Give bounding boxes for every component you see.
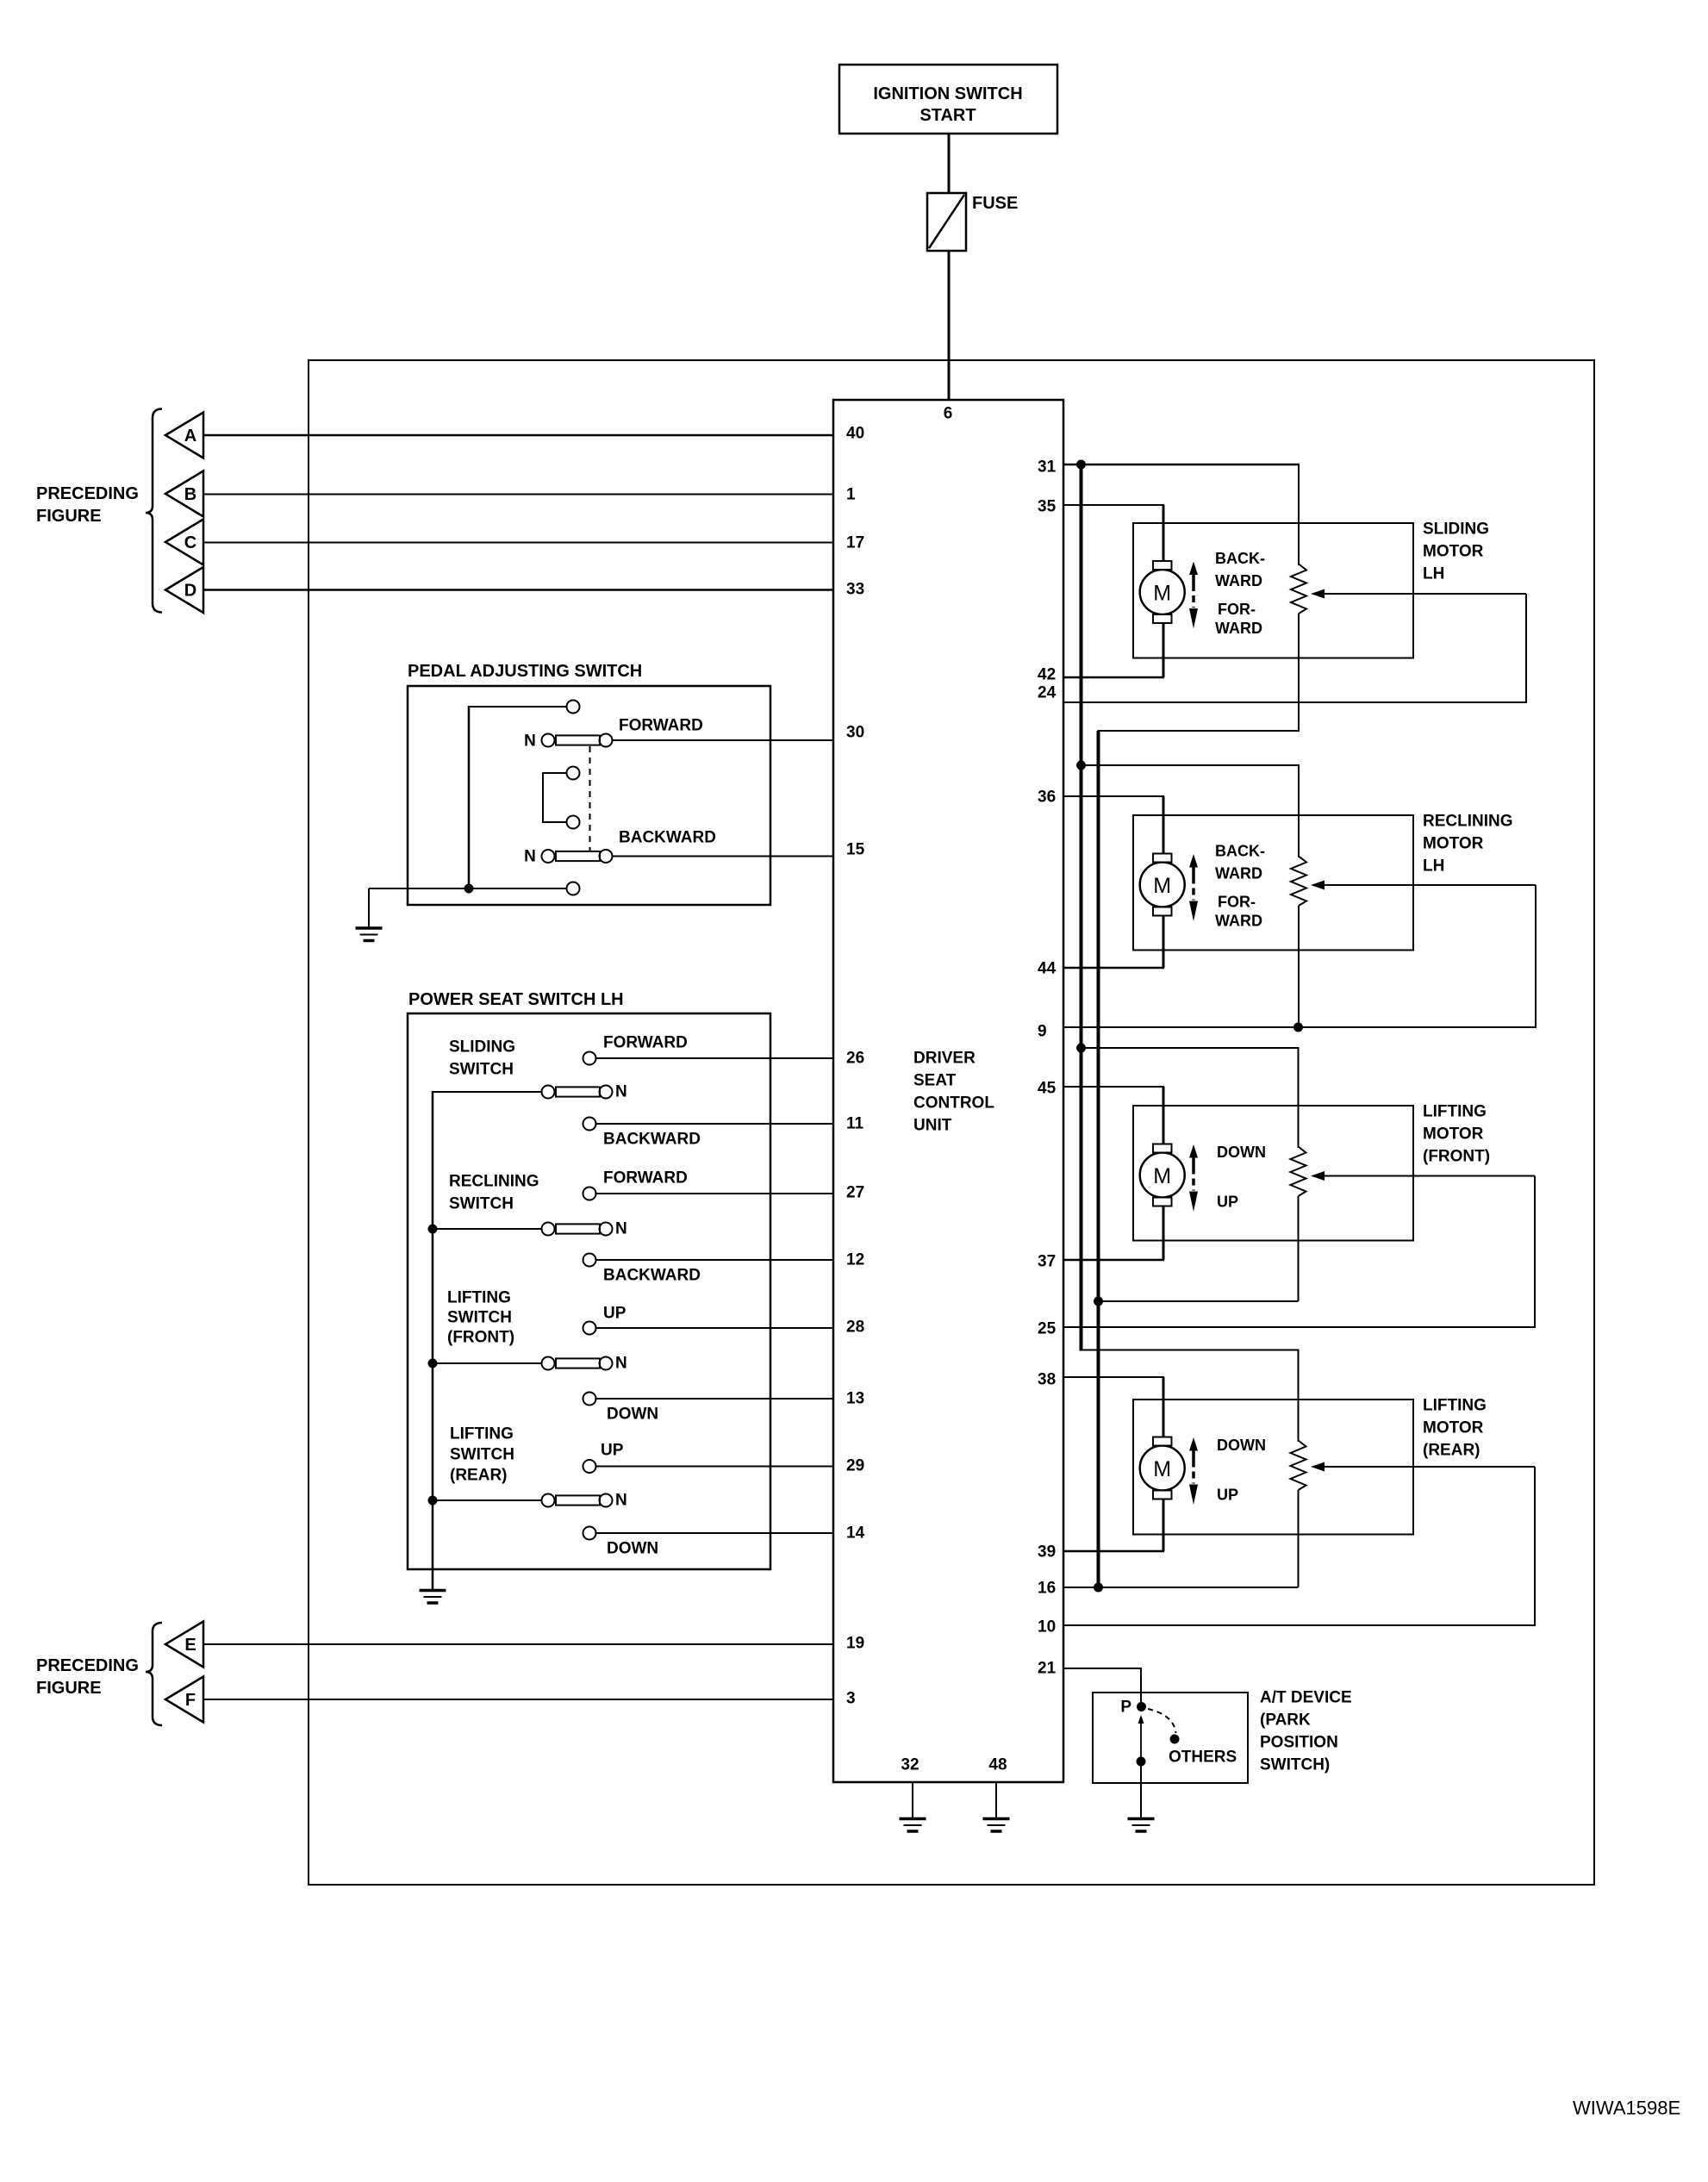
svg-text:B: B bbox=[184, 485, 196, 504]
motor2 resistor lower lead bbox=[1298, 906, 1300, 1027]
svg-text:40: 40 bbox=[846, 425, 864, 443]
svg-text:FIGURE: FIGURE bbox=[36, 1679, 102, 1698]
svg-text:14: 14 bbox=[846, 1524, 865, 1543]
motor M2 bbox=[1140, 863, 1185, 907]
svg-text:BACKWARD: BACKWARD bbox=[603, 1131, 701, 1149]
svg-text:SLIDING: SLIDING bbox=[449, 1038, 515, 1057]
wire sliding bar to common bbox=[433, 1091, 542, 1093]
wire to pin 27 bbox=[596, 1193, 834, 1194]
motor1 position sensor resistor bbox=[1291, 564, 1306, 614]
reclining switch backward contact bbox=[583, 1254, 596, 1267]
wire pin 38 to motor4 bbox=[1063, 1376, 1164, 1378]
pedal ground bbox=[368, 888, 370, 928]
wire to pin 13 bbox=[596, 1398, 834, 1400]
node bus1 feed motor2 bbox=[1076, 761, 1086, 770]
svg-text:CONTROL: CONTROL bbox=[913, 1094, 994, 1113]
motor2 direction arrows bbox=[1189, 854, 1198, 868]
power seat switch ground bbox=[420, 1589, 446, 1593]
return bus 2 bbox=[1097, 731, 1100, 1587]
svg-text:30: 30 bbox=[846, 724, 864, 742]
pin 48 ground bbox=[995, 1782, 997, 1818]
svg-text:LH: LH bbox=[1423, 857, 1444, 876]
svg-text:D: D bbox=[184, 582, 196, 601]
svg-text:N: N bbox=[524, 848, 536, 866]
svg-text:48: 48 bbox=[988, 1756, 1007, 1774]
motor2 wiper arrow bbox=[1322, 884, 1536, 886]
wire pedal backward to pin 15 bbox=[613, 856, 834, 857]
svg-text:BACKWARD: BACKWARD bbox=[603, 1267, 701, 1285]
motor3 position sensor resistor bbox=[1291, 1147, 1306, 1197]
motor4 position sensor resistor bbox=[1291, 1441, 1306, 1491]
wire pin 16 to motor4 resistor return bbox=[1063, 1587, 1299, 1588]
driver seat control unit bbox=[833, 400, 1063, 1782]
svg-text:37: 37 bbox=[1038, 1253, 1056, 1271]
connector triangle F bbox=[165, 1677, 203, 1723]
motor3 wiper arrow bbox=[1322, 1175, 1535, 1177]
svg-text:45: 45 bbox=[1038, 1080, 1057, 1098]
svg-text:11: 11 bbox=[846, 1115, 864, 1133]
switch arm arrow bbox=[1140, 1722, 1142, 1759]
node pedal common junction bbox=[369, 888, 566, 889]
dashed selector arc bbox=[1148, 1709, 1176, 1733]
wire to pin 14 bbox=[596, 1532, 834, 1534]
svg-text:A/T DEVICE: A/T DEVICE bbox=[1260, 1689, 1352, 1707]
svg-text:PRECEDING: PRECEDING bbox=[36, 1656, 139, 1675]
svg-text:13: 13 bbox=[846, 1390, 864, 1408]
svg-text:N: N bbox=[615, 1220, 627, 1238]
svg-text:FOR-: FOR- bbox=[1218, 894, 1256, 911]
svg-text:N: N bbox=[615, 1355, 627, 1373]
lower contact bbox=[1137, 1757, 1146, 1767]
svg-text:FORWARD: FORWARD bbox=[619, 717, 703, 735]
wire F to pin 3 bbox=[203, 1699, 833, 1700]
svg-text:UP: UP bbox=[601, 1442, 624, 1460]
node bus1 top junction bbox=[1076, 460, 1086, 470]
motor1 resistor return bbox=[1298, 614, 1300, 732]
wire ignition to fuse bbox=[948, 134, 951, 193]
svg-text:26: 26 bbox=[846, 1050, 864, 1068]
sliding switch backward contact bbox=[583, 1118, 596, 1131]
svg-text:WARD: WARD bbox=[1215, 572, 1262, 589]
wire to pin 12 bbox=[596, 1259, 834, 1261]
common ground line bbox=[432, 1091, 434, 1590]
svg-text:39: 39 bbox=[1038, 1543, 1056, 1562]
svg-text:UNIT: UNIT bbox=[913, 1117, 952, 1135]
svg-text:LIFTING: LIFTING bbox=[450, 1425, 514, 1443]
svg-text:28: 28 bbox=[846, 1319, 864, 1337]
motor1 direction arrows bbox=[1189, 562, 1198, 576]
svg-text:POSITION: POSITION bbox=[1260, 1734, 1338, 1752]
svg-text:(FRONT): (FRONT) bbox=[447, 1329, 514, 1347]
pedal neutral contacts bbox=[567, 767, 580, 780]
svg-text:RECLINING: RECLINING bbox=[1423, 813, 1513, 831]
ignition switch box bbox=[839, 65, 1057, 134]
reclining motor LH box bbox=[1133, 815, 1413, 951]
svg-text:(FRONT): (FRONT) bbox=[1423, 1148, 1490, 1166]
node bus2 pin16 junction bbox=[1094, 1583, 1103, 1593]
wire motor2 wiper to pin 9 bbox=[1535, 885, 1537, 1027]
svg-text:38: 38 bbox=[1038, 1371, 1056, 1389]
feed wire to motor3 resistor bbox=[1082, 1047, 1300, 1049]
motor M3 bbox=[1140, 1153, 1185, 1198]
svg-text:OTHERS: OTHERS bbox=[1169, 1749, 1237, 1767]
wire pedal forward to pin 30 bbox=[613, 739, 834, 741]
svg-text:DOWN: DOWN bbox=[1217, 1144, 1266, 1161]
node bus1 feed motor3 bbox=[1076, 1044, 1086, 1053]
svg-text:10: 10 bbox=[1038, 1618, 1056, 1636]
sliding switch bar bbox=[542, 1086, 555, 1099]
svg-text:SLIDING: SLIDING bbox=[1423, 521, 1489, 539]
wire pin 31 to resistor feed bbox=[1063, 464, 1300, 466]
svg-text:LIFTING: LIFTING bbox=[1423, 1103, 1487, 1121]
svg-text:M: M bbox=[1153, 874, 1171, 898]
wire motor4 wiper to pin 10 bbox=[1534, 1467, 1536, 1625]
contact OTHERS bbox=[1170, 1735, 1180, 1744]
svg-text:START: START bbox=[919, 106, 976, 125]
svg-text:12: 12 bbox=[846, 1251, 864, 1269]
motor4 direction arrows bbox=[1189, 1437, 1198, 1451]
connector triangle B bbox=[165, 471, 203, 517]
svg-text:BACK-: BACK- bbox=[1215, 843, 1265, 860]
svg-text:PEDAL ADJUSTING SWITCH: PEDAL ADJUSTING SWITCH bbox=[408, 662, 642, 681]
svg-text:35: 35 bbox=[1038, 498, 1057, 516]
wire motor1 to pin 42 bbox=[1163, 623, 1165, 677]
svg-text:27: 27 bbox=[846, 1184, 864, 1202]
svg-text:32: 32 bbox=[901, 1756, 919, 1774]
svg-text:25: 25 bbox=[1038, 1320, 1057, 1338]
svg-text:21: 21 bbox=[1038, 1660, 1057, 1678]
motor3 direction arrows bbox=[1189, 1144, 1198, 1158]
svg-text:MOTOR: MOTOR bbox=[1423, 543, 1484, 561]
node resistor2 to pin9 junction bbox=[1293, 1023, 1303, 1032]
mechanical link dashed bbox=[589, 746, 591, 851]
svg-text:FORWARD: FORWARD bbox=[603, 1169, 688, 1188]
motor4 wiper arrow bbox=[1322, 1466, 1535, 1468]
connector triangle A bbox=[165, 413, 203, 458]
svg-text:N: N bbox=[524, 733, 536, 751]
svg-text:DOWN: DOWN bbox=[607, 1406, 658, 1424]
svg-text:FUSE: FUSE bbox=[972, 194, 1018, 213]
svg-text:BACK-: BACK- bbox=[1215, 550, 1265, 567]
wire to pin 11 bbox=[596, 1123, 834, 1125]
svg-text:E: E bbox=[184, 1636, 196, 1655]
wire to pin 26 bbox=[596, 1057, 834, 1059]
A/T device box bbox=[1093, 1693, 1248, 1783]
svg-text:6: 6 bbox=[944, 405, 953, 423]
svg-text:33: 33 bbox=[846, 581, 864, 599]
svg-text:(REAR): (REAR) bbox=[450, 1467, 508, 1485]
brace top bbox=[146, 409, 162, 613]
brace bottom bbox=[146, 1623, 162, 1725]
node bus2 motor3 return bbox=[1094, 1297, 1103, 1306]
svg-text:44: 44 bbox=[1038, 960, 1057, 978]
svg-text:42: 42 bbox=[1038, 666, 1056, 684]
wire motor2 to pin 44 bbox=[1163, 916, 1165, 969]
wire B to pin 1 bbox=[203, 494, 833, 496]
wire top contact to common bbox=[469, 706, 566, 708]
wire fuse to pin 6 bbox=[948, 251, 951, 401]
svg-text:SWITCH: SWITCH bbox=[450, 1446, 514, 1464]
connector triangle E bbox=[165, 1622, 203, 1668]
motor M4 bbox=[1140, 1446, 1185, 1491]
svg-text:P: P bbox=[1120, 1699, 1131, 1717]
svg-text:M: M bbox=[1153, 1457, 1171, 1481]
pedal common bottom contact bbox=[567, 882, 580, 895]
lifting front switch bar bbox=[428, 1359, 438, 1368]
wire A to pin 40 bbox=[203, 434, 833, 437]
wire pin 36 to motor2 bbox=[1063, 795, 1164, 797]
wire motor4 to pin 39 bbox=[1163, 1499, 1165, 1552]
svg-text:36: 36 bbox=[1038, 789, 1056, 807]
svg-text:15: 15 bbox=[846, 841, 865, 859]
wire pin 45 to motor3 bbox=[1063, 1086, 1164, 1088]
wire to pin 29 bbox=[596, 1466, 834, 1468]
svg-text:FORWARD: FORWARD bbox=[603, 1034, 688, 1052]
svg-text:WARD: WARD bbox=[1215, 865, 1262, 882]
svg-text:WARD: WARD bbox=[1215, 620, 1262, 637]
motor2 position sensor resistor bbox=[1291, 857, 1306, 907]
svg-text:MOTOR: MOTOR bbox=[1423, 1125, 1484, 1144]
svg-text:MOTOR: MOTOR bbox=[1423, 1419, 1484, 1437]
neutral contact link bbox=[543, 773, 566, 822]
sliding motor LH box bbox=[1133, 523, 1413, 658]
wire pin 35 to motor1 bbox=[1063, 504, 1164, 506]
lifting rear down contact bbox=[583, 1527, 596, 1540]
svg-text:M: M bbox=[1153, 582, 1171, 606]
svg-text:31: 31 bbox=[1038, 458, 1057, 477]
svg-text:MOTOR: MOTOR bbox=[1423, 835, 1484, 853]
connector triangle C bbox=[165, 520, 203, 565]
svg-text:N: N bbox=[615, 1492, 627, 1510]
svg-text:M: M bbox=[1153, 1164, 1171, 1188]
wire E to pin 19 bbox=[203, 1643, 833, 1645]
svg-text:3: 3 bbox=[846, 1690, 856, 1708]
outer border bbox=[309, 360, 1594, 1885]
svg-text:WIWA1598E: WIWA1598E bbox=[1573, 2098, 1680, 2119]
svg-text:29: 29 bbox=[846, 1457, 864, 1475]
svg-text:F: F bbox=[185, 1691, 196, 1710]
svg-text:DOWN: DOWN bbox=[1217, 1437, 1266, 1454]
svg-text:IGNITION SWITCH: IGNITION SWITCH bbox=[873, 84, 1022, 103]
wire C to pin 17 bbox=[203, 542, 833, 544]
svg-text:LIFTING: LIFTING bbox=[1423, 1397, 1487, 1415]
wire motor1 wiper to pin 24 bbox=[1525, 594, 1527, 702]
lifting motor rear box bbox=[1133, 1400, 1413, 1535]
svg-text:A: A bbox=[184, 427, 196, 446]
svg-text:PRECEDING: PRECEDING bbox=[36, 484, 139, 503]
fuse bbox=[927, 193, 966, 251]
svg-text:UP: UP bbox=[1217, 1194, 1238, 1211]
svg-text:SWITCH): SWITCH) bbox=[1260, 1756, 1330, 1774]
svg-text:UP: UP bbox=[603, 1305, 626, 1323]
svg-text:LH: LH bbox=[1423, 565, 1444, 583]
svg-text:POWER SEAT SWITCH LH: POWER SEAT SWITCH LH bbox=[408, 990, 624, 1009]
wire pin 21 to A/T device bbox=[1063, 1668, 1142, 1669]
reclining switch bar bbox=[428, 1225, 438, 1234]
svg-text:1: 1 bbox=[846, 486, 856, 504]
svg-text:(PARK: (PARK bbox=[1260, 1711, 1311, 1730]
svg-text:SWITCH: SWITCH bbox=[449, 1061, 514, 1079]
svg-text:LIFTING: LIFTING bbox=[447, 1289, 511, 1307]
svg-text:(REAR): (REAR) bbox=[1423, 1442, 1480, 1460]
svg-text:SEAT: SEAT bbox=[913, 1072, 957, 1090]
wire motor3 wiper to pin 25 bbox=[1534, 1176, 1536, 1328]
svg-text:RECLINING: RECLINING bbox=[449, 1173, 539, 1191]
connector triangle D bbox=[165, 567, 203, 613]
supply bus 1 bbox=[1080, 464, 1083, 1351]
wire motor3 to pin 37 bbox=[1163, 1206, 1165, 1261]
wire to pin 28 bbox=[596, 1327, 834, 1329]
lifting front down contact bbox=[583, 1393, 596, 1406]
wire D to pin 33 bbox=[203, 589, 833, 591]
svg-text:DRIVER: DRIVER bbox=[913, 1050, 976, 1068]
pin 32 ground bbox=[912, 1782, 913, 1818]
motor1 wiper arrow bbox=[1322, 593, 1526, 595]
svg-text:N: N bbox=[615, 1083, 627, 1101]
A/T device ground bbox=[1140, 1761, 1142, 1818]
feed wire to motor4 resistor bbox=[1082, 1350, 1300, 1351]
motor3 resistor return bbox=[1298, 1196, 1300, 1301]
svg-text:SWITCH: SWITCH bbox=[447, 1309, 512, 1327]
svg-text:17: 17 bbox=[846, 534, 864, 552]
svg-text:19: 19 bbox=[846, 1635, 864, 1653]
svg-text:24: 24 bbox=[1038, 684, 1057, 702]
pedal common top contact bbox=[567, 701, 580, 714]
svg-text:16: 16 bbox=[1038, 1580, 1056, 1598]
svg-text:WARD: WARD bbox=[1215, 913, 1262, 930]
motor M1 bbox=[1140, 570, 1185, 614]
lifting rear switch bar bbox=[428, 1496, 438, 1506]
svg-text:FOR-: FOR- bbox=[1218, 601, 1256, 618]
svg-text:9: 9 bbox=[1038, 1023, 1047, 1041]
svg-text:SWITCH: SWITCH bbox=[449, 1195, 514, 1213]
svg-text:DOWN: DOWN bbox=[607, 1540, 658, 1558]
feed wire to motor2 resistor bbox=[1082, 764, 1300, 766]
svg-text:FIGURE: FIGURE bbox=[36, 507, 102, 526]
lifting motor front box bbox=[1133, 1106, 1413, 1241]
svg-text:BACKWARD: BACKWARD bbox=[619, 829, 716, 847]
svg-text:C: C bbox=[184, 533, 196, 552]
svg-text:UP: UP bbox=[1217, 1487, 1238, 1504]
